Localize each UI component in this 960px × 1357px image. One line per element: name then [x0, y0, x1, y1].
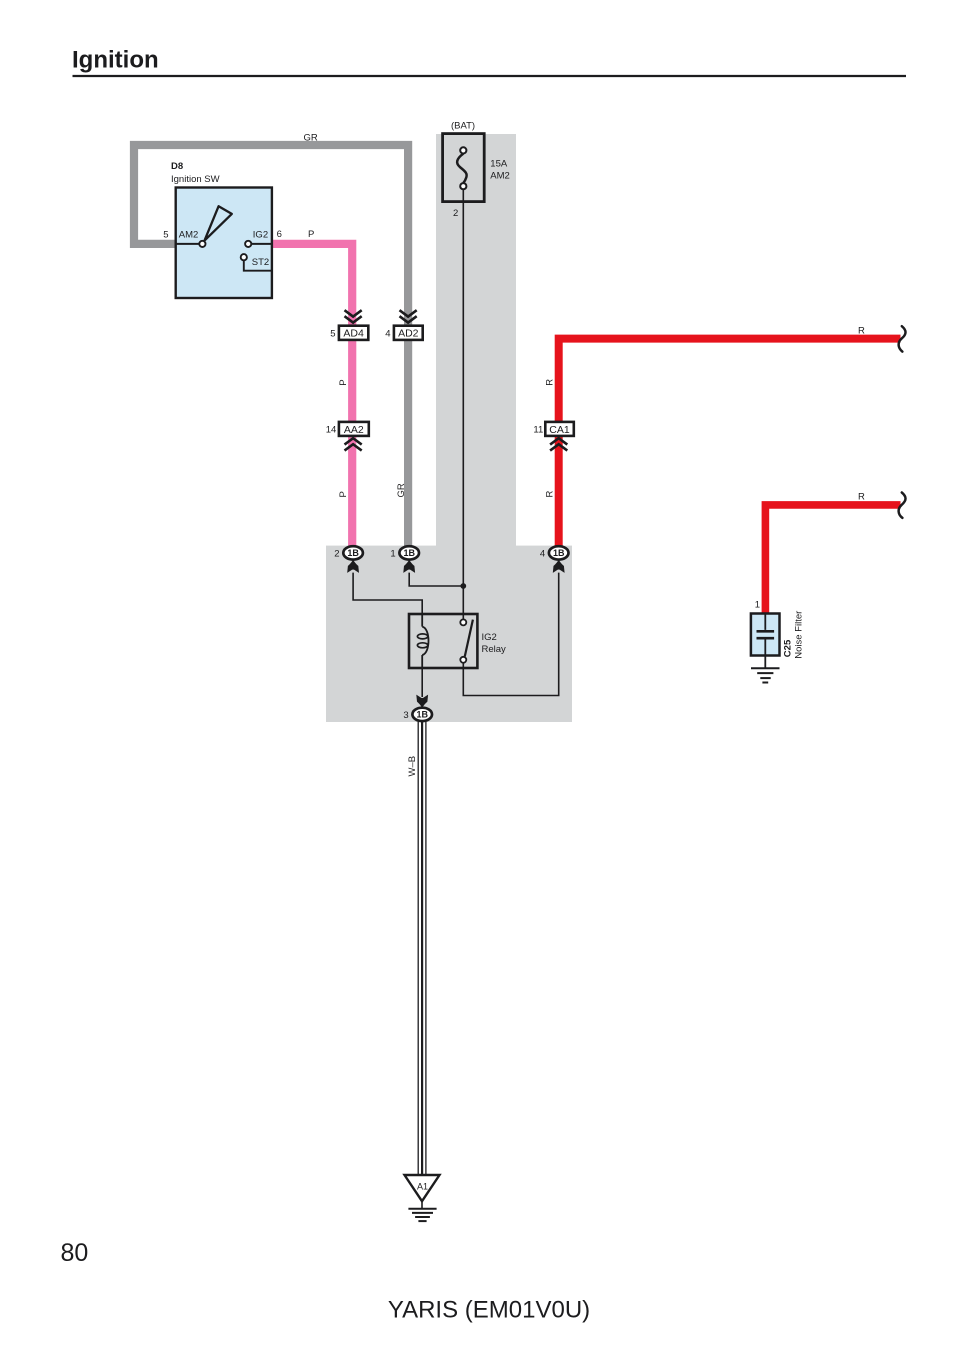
svg-text:Ignition SW: Ignition SW [171, 174, 220, 185]
arrow into 1B pin3 (down) [416, 695, 428, 708]
svg-text:R: R [858, 492, 865, 503]
connector AD2 [394, 310, 423, 340]
wire (fuse lead down to relay contact, thin black) [462, 189, 464, 619]
svg-text:1: 1 [755, 600, 760, 611]
svg-text:GR: GR [304, 133, 318, 144]
svg-text:1B: 1B [347, 548, 359, 558]
svg-text:AM2: AM2 [490, 170, 510, 181]
connector oval 1B pin4 [549, 546, 569, 559]
ground (C25) [751, 668, 780, 682]
svg-text:ST2: ST2 [252, 257, 269, 268]
wire GR (ignition SW AM2 to AD2 connector, thick gray) [134, 145, 408, 546]
svg-text:5: 5 [330, 329, 335, 340]
svg-text:Noise Filter: Noise Filter [794, 611, 805, 659]
svg-text:14: 14 [326, 425, 337, 436]
svg-text:AD2: AD2 [398, 328, 419, 340]
arrow into 1B pin1 [403, 560, 415, 573]
svg-text:5: 5 [163, 230, 168, 241]
wire break symbol (second red wire) [899, 493, 906, 518]
svg-text:2: 2 [334, 548, 339, 559]
capacitor C25 noise filter [751, 614, 780, 669]
svg-text:(BAT): (BAT) [451, 120, 475, 131]
svg-text:AM2: AM2 [179, 230, 199, 241]
svg-text:W–B: W–B [407, 756, 418, 777]
svg-text:D8: D8 [171, 161, 183, 172]
page title "Ignition" [72, 47, 906, 77]
svg-text:A1: A1 [417, 1181, 428, 1191]
svg-text:Relay: Relay [482, 644, 507, 655]
svg-text:11: 11 [533, 425, 543, 436]
svg-text:4: 4 [385, 329, 390, 340]
connector AA2 [339, 422, 369, 451]
fuse 15A AM2 [443, 134, 485, 202]
connector CA1 [545, 422, 574, 451]
node junction dot [460, 583, 466, 589]
svg-text:P: P [338, 491, 349, 497]
harness shading band (fuse column) [436, 134, 516, 546]
svg-text:P: P [338, 379, 349, 385]
svg-text:80: 80 [61, 1239, 89, 1267]
svg-text:CA1: CA1 [549, 424, 570, 436]
svg-text:R: R [544, 379, 555, 386]
wire R (1B pin4 up through CA1 to right edge, thick red) [559, 339, 901, 546]
wire W-B (triple line to ground) [418, 722, 426, 1175]
relay IG2 [409, 614, 477, 668]
wire (relay switch to 1B pin4) [463, 573, 558, 696]
svg-text:R: R [544, 491, 555, 498]
svg-text:4: 4 [540, 548, 545, 559]
svg-text:1B: 1B [553, 548, 565, 558]
connector AD4 [339, 310, 368, 340]
svg-text:1B: 1B [416, 710, 428, 720]
svg-text:P: P [308, 229, 314, 240]
svg-text:3: 3 [403, 710, 408, 721]
wire (junction to 1B pin1 branch) [409, 573, 463, 586]
svg-text:C25: C25 [783, 639, 794, 657]
svg-text:15A: 15A [490, 159, 508, 170]
svg-text:2: 2 [453, 208, 458, 219]
svg-text:1: 1 [390, 548, 395, 559]
connector oval 1B pin3 [412, 708, 432, 721]
ground A1 [405, 1175, 440, 1221]
wire (1B pin2 down to relay coil) [353, 573, 422, 614]
connector oval 1B pin2 [343, 546, 363, 559]
connector oval 1B pin1 [399, 546, 419, 559]
harness shading block (relay junction area) [326, 546, 572, 722]
svg-text:R: R [858, 325, 865, 336]
svg-text:Ignition: Ignition [72, 47, 159, 74]
wire (relay coil to 1B pin3) [421, 668, 423, 697]
arrow into 1B pin2 [347, 560, 359, 573]
svg-text:AD4: AD4 [343, 328, 364, 340]
svg-text:AA2: AA2 [344, 424, 364, 436]
wire R (noise filter branch, thick red) [765, 505, 900, 614]
svg-text:IG2: IG2 [253, 230, 268, 241]
ignition switch D8 [176, 188, 272, 299]
svg-text:1B: 1B [403, 548, 415, 558]
svg-text:GR: GR [396, 483, 407, 497]
wire break symbol (top red wire) [899, 326, 906, 351]
wire P (ignition SW IG2 to AD4/AA2/1B, thick pink) [272, 244, 352, 546]
svg-text:6: 6 [277, 229, 282, 240]
svg-text:YARIS (EM01V0U): YARIS (EM01V0U) [388, 1297, 590, 1324]
arrow into 1B pin4 [553, 560, 565, 573]
svg-text:IG2: IG2 [482, 632, 497, 643]
